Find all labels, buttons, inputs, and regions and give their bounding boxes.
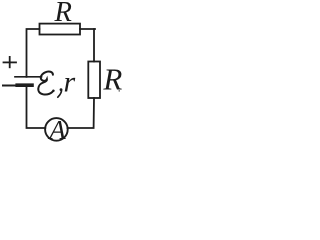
wire bottom-left segment <box>27 87 46 129</box>
wire top-left segment <box>27 29 40 77</box>
label comma <box>58 88 63 97</box>
wire right branch lower <box>67 98 94 128</box>
svg-text:R: R <box>54 0 72 28</box>
wire right branch upper <box>93 29 95 62</box>
wire top-right segment <box>80 28 95 30</box>
ammeter A1 <box>45 118 68 141</box>
svg-text:A: A <box>47 115 66 145</box>
battery long plate (+) <box>15 76 42 78</box>
speck after R <box>119 90 120 91</box>
resistor R1 <box>40 24 81 35</box>
label EMF script-E <box>38 72 54 95</box>
battery short plate (-) <box>17 83 32 87</box>
svg-text:r: r <box>64 66 76 99</box>
minus sign <box>3 85 15 87</box>
resistor R2 <box>88 62 100 99</box>
plus sign <box>4 57 17 67</box>
